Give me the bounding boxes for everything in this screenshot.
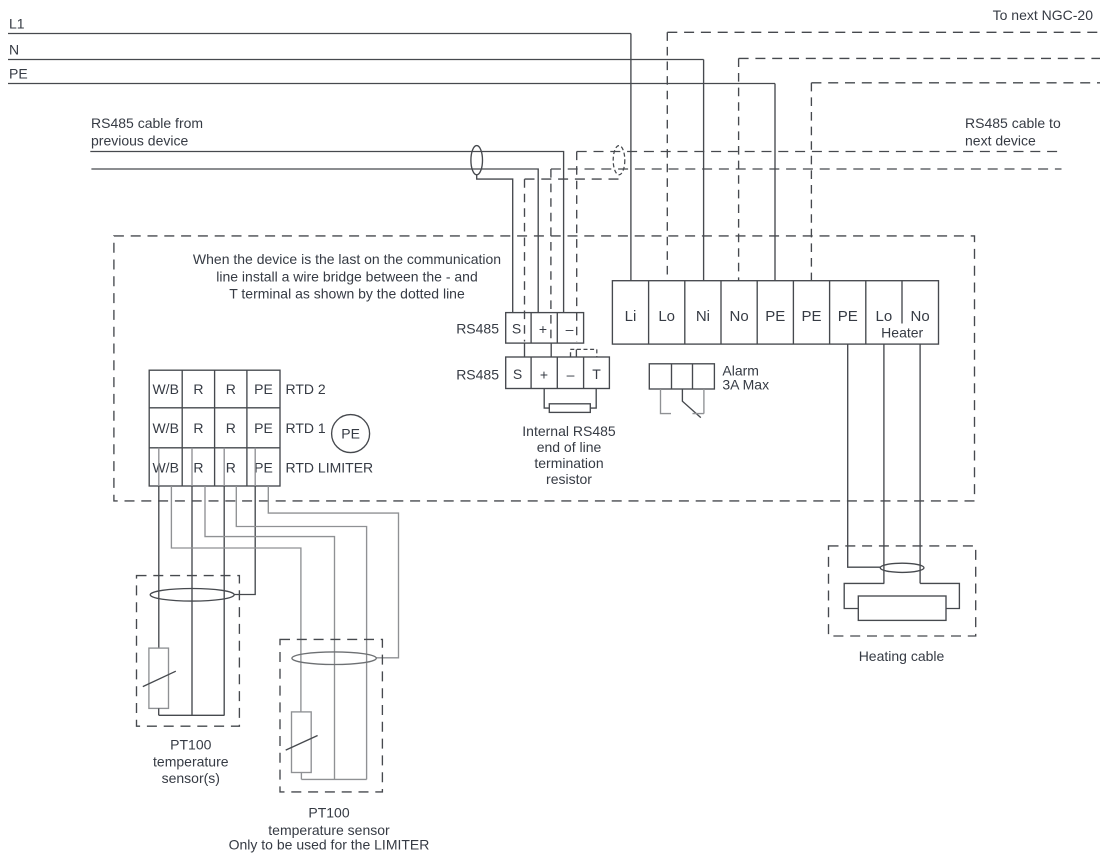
svg-text:RTD 2: RTD 2 <box>286 381 326 397</box>
svg-text:W/B: W/B <box>152 460 178 476</box>
wire alarm common <box>661 389 672 414</box>
RTD table row separators <box>149 408 280 448</box>
svg-text:W/B: W/B <box>152 420 178 436</box>
svg-text:To next NGC-20: To next NGC-20 <box>993 7 1094 23</box>
svg-text:RS485 cable to: RS485 cable to <box>965 115 1061 131</box>
svg-text:line install a wire bridge bet: line install a wire bridge between the -… <box>216 269 478 285</box>
RTD diagonal limiter sensor <box>286 736 318 751</box>
wire L1 drop to Li terminal <box>630 34 632 281</box>
svg-text:T terminal as shown by the dot: T terminal as shown by the dotted line <box>229 286 465 302</box>
wire dashed drop to S terminal <box>524 179 526 341</box>
wire LIMITER PE to shield <box>268 486 398 658</box>
wire EOL resistor right lead <box>590 389 596 409</box>
svg-text:Heating cable: Heating cable <box>859 648 945 664</box>
wire RS485 minus dashed to next <box>577 151 1062 153</box>
cable shield marker next device dashed <box>613 146 625 175</box>
svg-text:temperature: temperature <box>153 754 229 770</box>
svg-text:W/B: W/B <box>152 381 178 397</box>
svg-text:PE: PE <box>9 66 28 82</box>
svg-text:RTD 1: RTD 1 <box>286 420 326 436</box>
wire dashed drop to No terminal <box>738 58 740 280</box>
wire heater No <box>919 344 921 583</box>
wire L1 dashed continuation to next NGC-20 <box>667 31 1100 33</box>
wire RTD1 R2 pass-through <box>223 448 225 486</box>
svg-text:R: R <box>226 460 236 476</box>
wire RTD1 PE pass-through <box>254 448 256 486</box>
svg-text:RTD LIMITER: RTD LIMITER <box>286 460 374 476</box>
svg-text:previous device: previous device <box>91 133 188 149</box>
wire RS485 shield dashed to next <box>525 178 620 180</box>
wire RTD1 PE to shield <box>234 486 255 595</box>
svg-text:PE: PE <box>838 308 858 325</box>
svg-text:Only to be used for the LIMITE: Only to be used for the LIMITER <box>229 837 430 853</box>
heating cable connector outer shell <box>844 583 959 608</box>
svg-text:PT100: PT100 <box>308 805 349 821</box>
svg-text:No: No <box>911 308 930 325</box>
wire RS485 minus from previous <box>90 152 563 313</box>
svg-text:No: No <box>730 308 749 325</box>
wire RS485 plus dashed to next <box>551 168 1062 170</box>
wire RTD1 R2 to sensor <box>223 486 225 715</box>
cable shield marker previous device <box>471 146 483 175</box>
wire N bus <box>8 59 704 61</box>
sensor 1 cable shield marker <box>150 589 234 602</box>
main terminal strip <box>612 281 938 344</box>
wire PE drop to PE terminal <box>774 84 776 281</box>
svg-text:+: + <box>540 367 548 383</box>
svg-text:end of line: end of line <box>537 439 602 455</box>
svg-text:PT100: PT100 <box>170 737 211 753</box>
svg-text:R: R <box>193 420 203 436</box>
wire limiter sensor bottom joint <box>301 773 366 780</box>
PE terminal circle <box>332 415 370 453</box>
wire sensor 1 bottom joint <box>159 708 225 715</box>
svg-text:R: R <box>193 460 203 476</box>
wire RTD1 W/B pass-through <box>158 448 160 486</box>
wire PE bus <box>8 83 775 85</box>
RS485 lower terminal block <box>506 357 610 389</box>
limiter sensor cable shield marker <box>292 652 376 665</box>
wire L1 bus <box>8 33 631 35</box>
wire dashed drop to plus terminal <box>550 169 552 342</box>
wire dashed drop to PE terminal <box>810 83 812 281</box>
svg-text:PE: PE <box>254 420 273 436</box>
svg-text:PE: PE <box>765 308 785 325</box>
main strip separators <box>649 281 866 344</box>
svg-text:S: S <box>513 366 522 382</box>
wire dotted bridge minus to T <box>570 348 597 350</box>
wire alarm NO with tick <box>693 389 704 414</box>
svg-text:termination: termination <box>534 455 603 471</box>
svg-text:next device: next device <box>965 133 1036 149</box>
wire LIMITER W/B to sensor <box>171 486 301 712</box>
svg-text:RS485: RS485 <box>456 321 499 337</box>
svg-text:L1: L1 <box>9 16 25 32</box>
heating cable dashed box <box>829 546 976 636</box>
RTD diagonal sensor 1 <box>143 671 176 686</box>
wire N dashed continuation to next NGC-20 <box>739 57 1100 59</box>
RTD element sensor 1 <box>149 648 169 708</box>
svg-text:RS485 cable from: RS485 cable from <box>91 115 203 131</box>
svg-text:S: S <box>512 321 521 337</box>
svg-text:Li: Li <box>625 308 637 325</box>
wire N drop to Ni terminal <box>703 60 705 281</box>
svg-text:PE: PE <box>341 426 360 442</box>
wire LIMITER R to sensor <box>205 486 335 779</box>
NGC-20 device enclosure dashed box <box>114 236 975 501</box>
PT100 sensor 1 dashed box <box>137 576 240 727</box>
resistor internal RS485 termination <box>549 404 590 413</box>
wire RS485 plus from previous <box>91 169 538 313</box>
svg-text:Lo: Lo <box>876 308 893 325</box>
wire RTD1 W/B to sensor <box>158 486 160 648</box>
svg-text:Heater: Heater <box>881 325 923 341</box>
heating cable shield marker <box>880 563 924 572</box>
svg-text:3A Max: 3A Max <box>722 377 769 393</box>
switch alarm contact blade <box>682 389 700 418</box>
RTD terminal table outline <box>149 370 280 486</box>
wire plus stub between blocks <box>550 343 552 357</box>
PT100 limiter sensor dashed box <box>280 639 382 792</box>
svg-text:sensor(s): sensor(s) <box>162 770 220 786</box>
svg-text:Ni: Ni <box>696 308 710 325</box>
wire dashed drop to minus terminal <box>576 152 578 342</box>
svg-text:PE: PE <box>254 381 273 397</box>
wire heater PE to cable shield <box>848 344 881 567</box>
svg-text:When the device is the last on: When the device is the last on the commu… <box>193 251 501 267</box>
RS485 upper terminal block <box>506 313 584 344</box>
wire RTD1 R to sensor <box>191 486 193 715</box>
svg-text:PE: PE <box>254 460 273 476</box>
svg-text:resistor: resistor <box>546 471 592 487</box>
heating cable connector body <box>858 596 946 620</box>
wire heater Lo <box>883 344 885 583</box>
wire LIMITER R2 to sensor <box>236 486 366 779</box>
svg-text:Internal RS485: Internal RS485 <box>522 423 616 439</box>
svg-text:R: R <box>226 420 236 436</box>
RTD table column separators <box>182 370 247 486</box>
wire S stub between blocks <box>524 343 526 357</box>
wire RTD1 R pass-through <box>191 448 193 486</box>
wire PE dashed continuation to next NGC-20 <box>811 82 1100 84</box>
wire dashed drop to Lo terminal <box>666 32 668 280</box>
wire EOL resistor left lead <box>544 389 549 409</box>
svg-text:+: + <box>539 321 547 337</box>
svg-text:–: – <box>567 367 575 383</box>
svg-text:T: T <box>592 366 601 382</box>
svg-text:PE: PE <box>801 308 821 325</box>
wire minus stub <box>571 349 577 357</box>
svg-text:Lo: Lo <box>658 308 675 325</box>
svg-text:R: R <box>193 381 203 397</box>
svg-text:N: N <box>9 42 19 58</box>
alarm relay terminal block <box>649 364 714 389</box>
separator Lo/No heater partial <box>901 281 903 324</box>
wire RS485 shield from previous <box>477 175 513 313</box>
RTD element limiter sensor <box>292 712 312 773</box>
svg-text:–: – <box>566 321 574 337</box>
svg-text:RS485: RS485 <box>456 367 499 383</box>
svg-text:R: R <box>226 381 236 397</box>
